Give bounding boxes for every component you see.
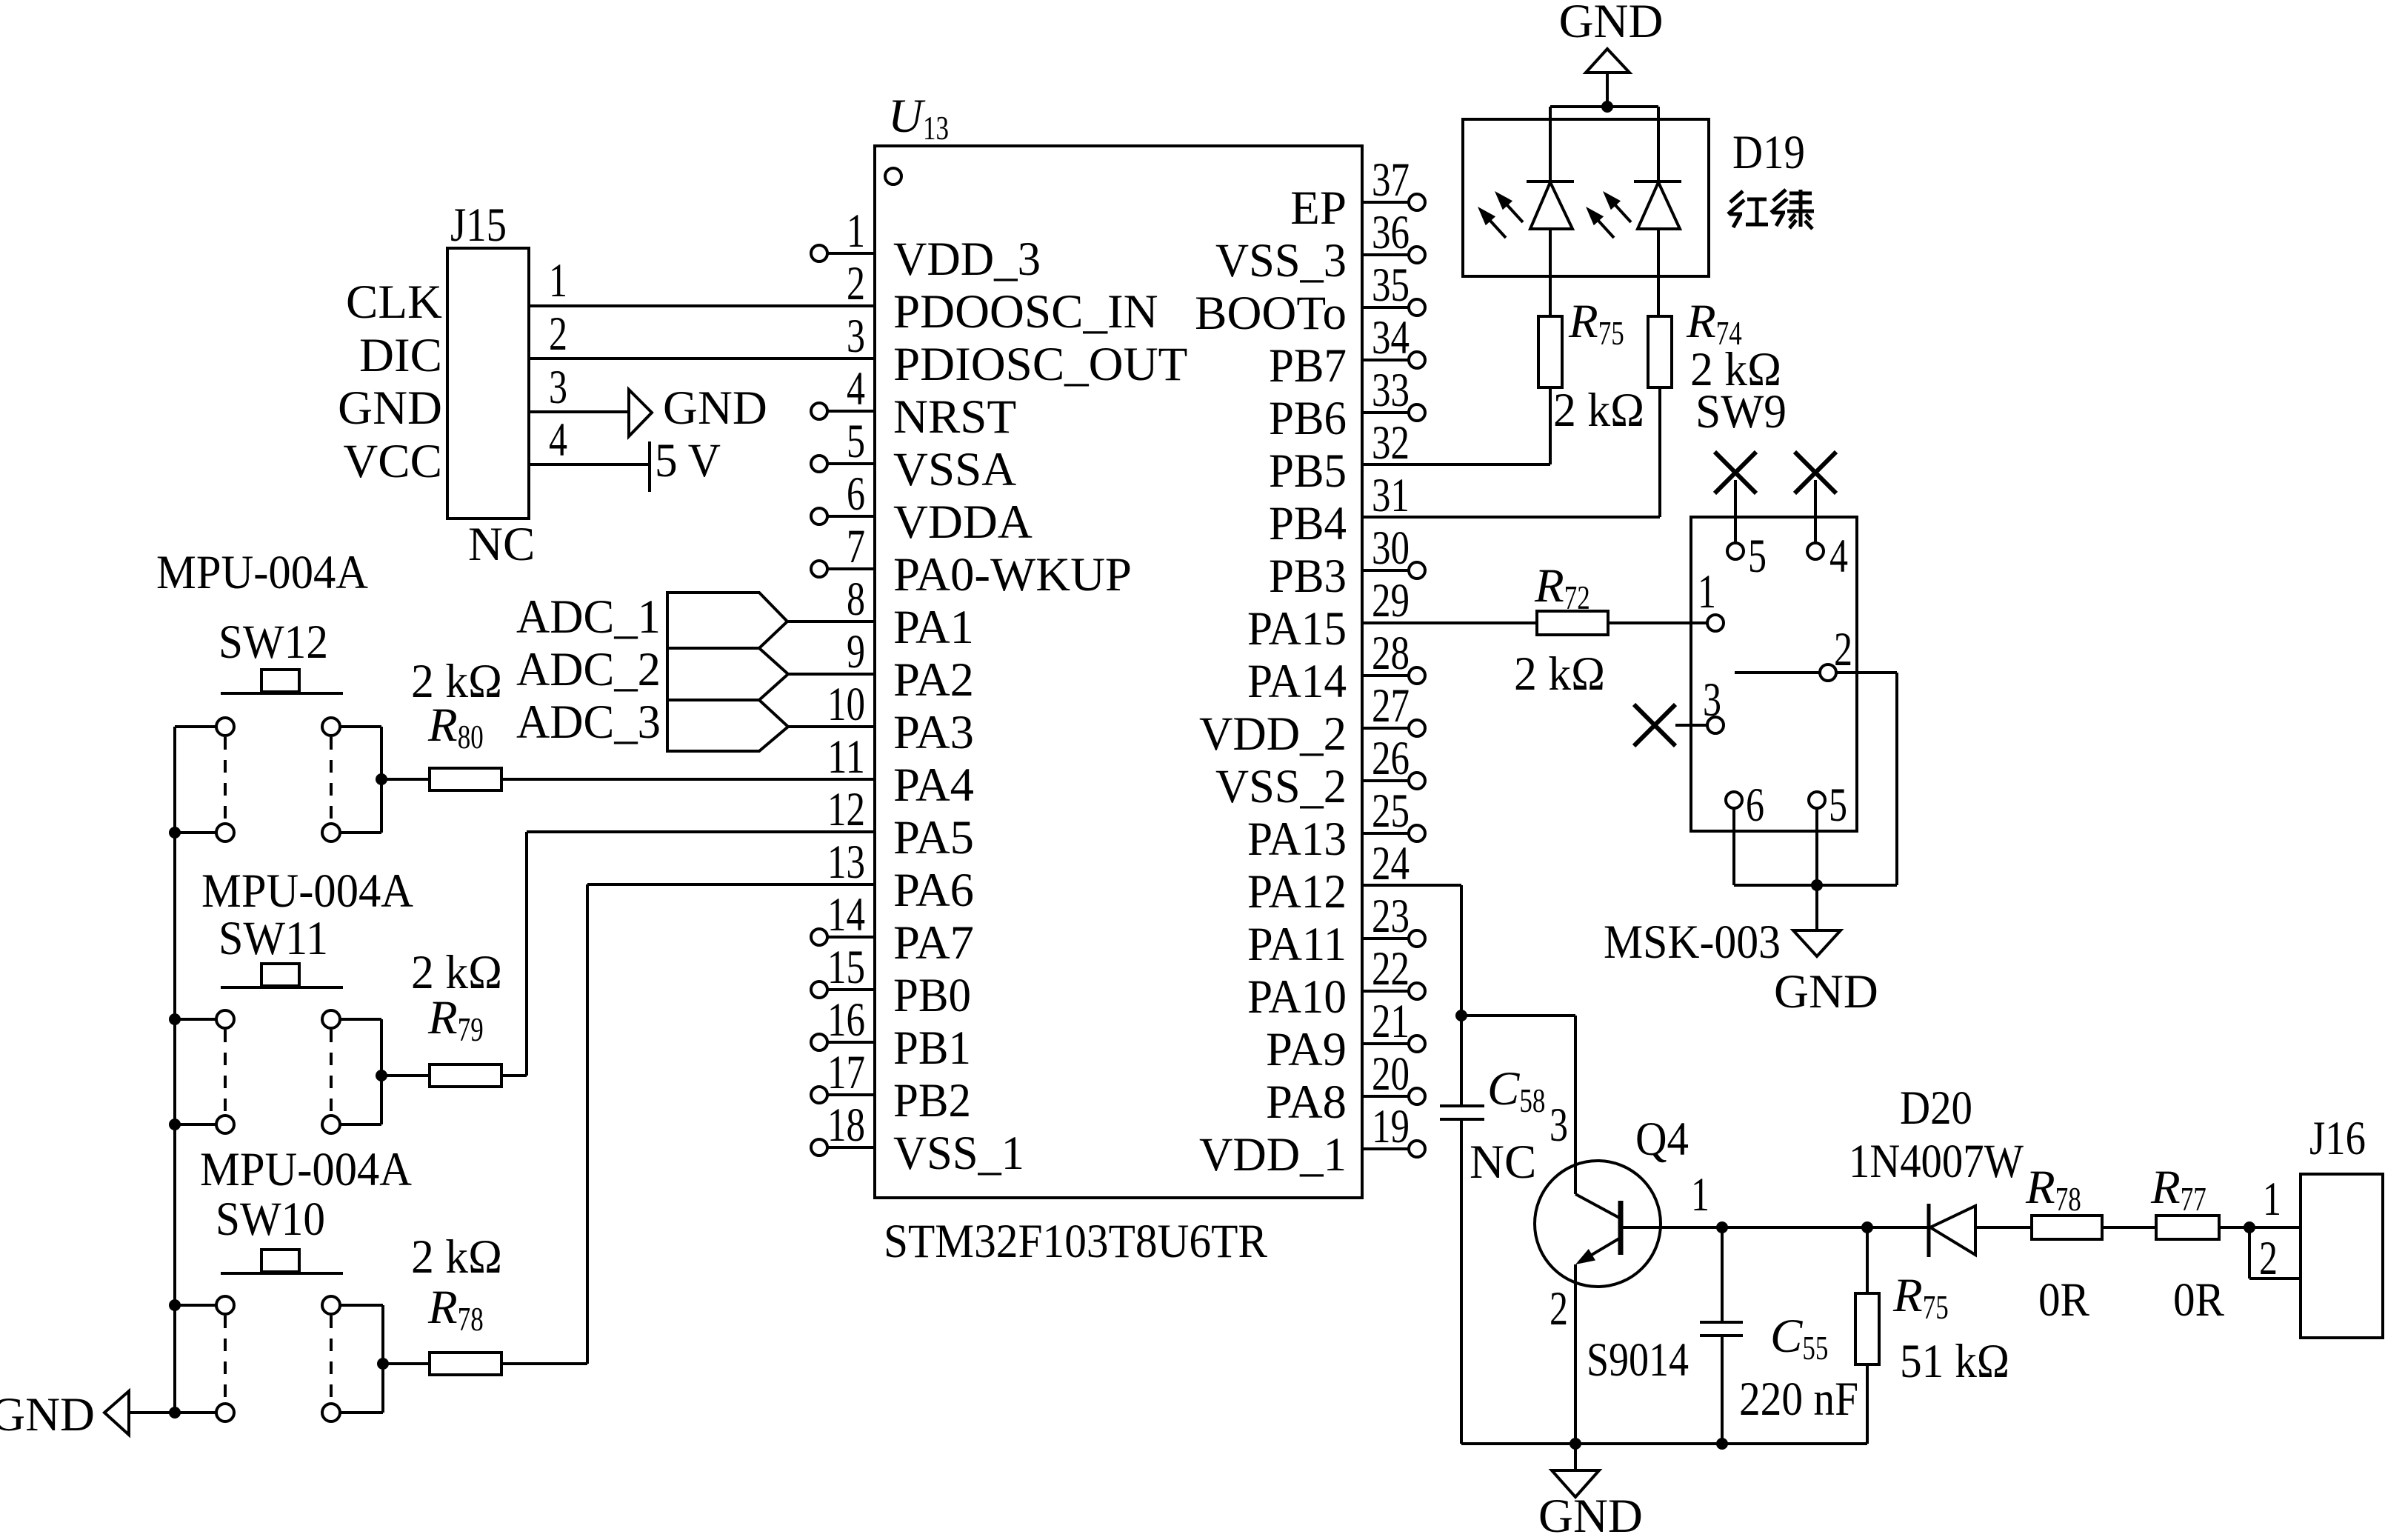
- svg-text:8: 8: [847, 573, 865, 626]
- svg-text:3: 3: [847, 310, 865, 363]
- U13 pin 11 PA4: [827, 730, 974, 812]
- svg-text:PDIOSC_OUT: PDIOSC_OUT: [893, 338, 1187, 391]
- svg-text:13: 13: [827, 836, 865, 889]
- ground symbol above D19: [1559, 0, 1664, 107]
- svg-text:5 V: 5 V: [655, 434, 721, 487]
- connector J16 label: [2309, 1112, 2366, 1165]
- svg-text:11: 11: [827, 730, 865, 784]
- svg-text:VDD_1: VDD_1: [1199, 1128, 1347, 1181]
- resistor R75 (LED left) body: [1538, 316, 1562, 387]
- svg-text:ADC_2: ADC_2: [516, 643, 661, 696]
- wire R75 to U13 pin32 PB5: [1362, 387, 1550, 464]
- svg-text:PB0: PB0: [893, 969, 971, 1022]
- U13 pin 2 PDOOSC_IN: [847, 257, 1158, 339]
- U13 pin 37 EP NC stub: [1290, 153, 1425, 235]
- svg-text:NRST: NRST: [893, 390, 1016, 444]
- LED D19 right diode: [1634, 181, 1681, 316]
- svg-text:3: 3: [1703, 673, 1721, 727]
- svg-text:18: 18: [827, 1099, 865, 1152]
- J15 signal label DIC: [359, 329, 442, 382]
- J15 signal label GND: [338, 381, 442, 435]
- transistor Q4 part S9014: [1587, 1333, 1689, 1387]
- U13 pin 30 PB3 NC stub: [1269, 521, 1425, 603]
- SW9 pin 4 top contact: [1807, 530, 1848, 583]
- svg-text:2: 2: [847, 257, 865, 310]
- U13 pin 28 PA14 NC stub: [1247, 627, 1425, 708]
- svg-text:PA7: PA7: [893, 916, 974, 970]
- svg-text:5: 5: [1829, 779, 1847, 832]
- svg-text:4: 4: [549, 413, 567, 467]
- J16 pin 2 number: [2259, 1232, 2278, 1285]
- capacitor C55 label: [1770, 1310, 1828, 1367]
- svg-text:PA15: PA15: [1247, 602, 1347, 656]
- svg-text:3: 3: [549, 361, 567, 414]
- svg-text:GND: GND: [1774, 965, 1878, 1019]
- resistor R75 (51k) connection: [1861, 1221, 1873, 1293]
- resistor R78 body (switch pullup): [383, 1353, 501, 1375]
- svg-text:26: 26: [1372, 732, 1410, 785]
- resistor R72 value 2 kOhm: [1514, 647, 1605, 701]
- ground symbol below Q4: [1538, 1444, 1643, 1540]
- svg-text:MPU-004A: MPU-004A: [201, 864, 413, 918]
- transistor Q4 label: [1635, 1113, 1689, 1166]
- J15 pin 1 number: [549, 254, 567, 307]
- connector J15 body: [447, 248, 529, 519]
- U13 pin 24 PA12: [1247, 837, 1410, 919]
- svg-text:PDOOSC_IN: PDOOSC_IN: [893, 285, 1158, 339]
- ground flag at J15 pin3: [629, 381, 767, 436]
- svg-text:4: 4: [847, 362, 865, 416]
- resistor R79 value 2 kOhm: [411, 946, 502, 999]
- svg-text:51 kΩ: 51 kΩ: [1900, 1335, 2009, 1388]
- power symbol 5 V: [650, 434, 721, 492]
- svg-text:PB1: PB1: [893, 1021, 971, 1075]
- svg-text:S9014: S9014: [1587, 1333, 1689, 1387]
- svg-text:32: 32: [1372, 416, 1410, 470]
- svg-text:VSS_1: VSS_1: [893, 1127, 1024, 1180]
- svg-text:28: 28: [1372, 627, 1410, 680]
- svg-text:PA9: PA9: [1266, 1023, 1347, 1076]
- svg-text:6: 6: [1746, 779, 1764, 832]
- connector J15 label: [450, 199, 507, 252]
- net flag ADC_1 on U13 pin8 PA1: [516, 590, 787, 648]
- svg-text:VCC: VCC: [343, 435, 442, 488]
- J15 pin 2 number: [549, 307, 567, 361]
- svg-text:1N4007W: 1N4007W: [1849, 1135, 2024, 1188]
- LED D19 right arrows: [1586, 191, 1631, 238]
- switch SW12 reference label: [219, 616, 328, 669]
- svg-text:EP: EP: [1290, 181, 1347, 235]
- svg-text:5: 5: [847, 415, 865, 468]
- U13 pin 5 VSSA NC stub: [811, 415, 1016, 496]
- U13 pin 9 PA2: [847, 625, 974, 707]
- SW9 pin 5 bottom contact: [1809, 779, 1847, 832]
- svg-text:PA3: PA3: [893, 706, 974, 759]
- svg-text:14: 14: [827, 888, 865, 941]
- U13 pin 19 VDD_1 NC stub: [1199, 1100, 1425, 1181]
- svg-text:1: 1: [2263, 1173, 2281, 1226]
- svg-text:NC: NC: [1470, 1136, 1536, 1189]
- U13 pin 20 PA8 NC stub: [1266, 1047, 1425, 1129]
- ground symbol below SW9: [1774, 885, 1878, 1019]
- LED module D19 body: [1463, 119, 1709, 276]
- svg-text:15: 15: [827, 941, 865, 994]
- svg-text:J15: J15: [450, 199, 507, 252]
- svg-text:Q4: Q4: [1635, 1113, 1689, 1166]
- svg-text:0R: 0R: [2173, 1273, 2225, 1327]
- wire U13 pin29 PA15 to R72 to SW9 pin1: [1362, 621, 1707, 624]
- svg-text:10: 10: [827, 678, 865, 731]
- svg-text:23: 23: [1372, 890, 1410, 943]
- SW9 part label MSK-003: [1604, 916, 1781, 969]
- svg-text:2 kΩ: 2 kΩ: [411, 1230, 502, 1284]
- diode D20 symbol: [1929, 1204, 2032, 1257]
- svg-text:MSK-003: MSK-003: [1604, 916, 1781, 969]
- svg-text:34: 34: [1372, 311, 1410, 364]
- svg-text:6: 6: [847, 467, 865, 521]
- wire R77 to J16: [2219, 1221, 2301, 1233]
- resistor R74 value 2 kOhm: [1690, 343, 1781, 396]
- svg-text:SW12: SW12: [219, 616, 328, 669]
- U13 pin 12 PA5: [827, 783, 974, 864]
- J15 signal label CLK: [346, 276, 442, 329]
- wire SW9 pin5 bottom to ground rail: [1811, 808, 1823, 891]
- svg-text:GND: GND: [1559, 0, 1664, 48]
- U13 pin 10 PA3: [827, 678, 974, 759]
- svg-text:16: 16: [827, 993, 865, 1047]
- resistor R78 label: [427, 1281, 484, 1338]
- svg-text:PB4: PB4: [1269, 497, 1347, 550]
- svg-text:25: 25: [1372, 784, 1410, 838]
- SW9 pin 3 contact: [1703, 673, 1724, 733]
- svg-text:PB7: PB7: [1269, 339, 1347, 393]
- U13 pin 32 PB5: [1269, 416, 1410, 498]
- svg-text:PB6: PB6: [1269, 392, 1347, 445]
- resistor R78 (0R) label: [2025, 1161, 2081, 1218]
- svg-text:19: 19: [1372, 1100, 1410, 1153]
- svg-text:SW9: SW9: [1695, 385, 1787, 439]
- U13 pin 35 BOOTo NC stub: [1195, 259, 1425, 340]
- svg-text:DIC: DIC: [359, 329, 442, 382]
- U13 pin 3 PDIOSC_OUT: [847, 310, 1187, 391]
- transistor Q4 collector pin number 3: [1550, 1099, 1568, 1152]
- resistor R75 label: [1568, 295, 1624, 352]
- U13 pin 27 VDD_2 NC stub: [1199, 679, 1425, 761]
- resistor R74 body: [1648, 316, 1672, 387]
- resistor R80 body: [381, 768, 501, 790]
- resistor R78 value 0R: [2038, 1273, 2090, 1327]
- IC U1 (U13 STM32F103T8U6TR) body: [875, 146, 1362, 1198]
- switch SW10 contacts and dashed links: [216, 1296, 340, 1421]
- svg-text:220 nF: 220 nF: [1739, 1373, 1858, 1426]
- svg-text:PA12: PA12: [1247, 865, 1347, 919]
- transistor Q4 base pin number 1: [1691, 1168, 1709, 1221]
- U13 pin 33 PB6 NC stub: [1269, 364, 1425, 445]
- svg-text:2 kΩ: 2 kΩ: [1514, 647, 1605, 701]
- svg-text:VDD_2: VDD_2: [1199, 707, 1347, 761]
- svg-text:2 kΩ: 2 kΩ: [1553, 384, 1644, 437]
- U13 pin 22 PA10 NC stub: [1247, 942, 1425, 1024]
- net flag ADC_2 on U13 pin9 PA2: [516, 643, 788, 700]
- svg-text:GND: GND: [1538, 1490, 1643, 1540]
- SW9 no-connect X pin5 top: [1715, 452, 1756, 543]
- svg-text:SW11: SW11: [219, 912, 328, 965]
- svg-text:7: 7: [847, 520, 865, 573]
- svg-text:1: 1: [1691, 1168, 1709, 1221]
- resistor R78 (0R) body: [2032, 1216, 2102, 1239]
- SW9 pin 5 top contact: [1727, 530, 1767, 583]
- switch SW11 label MPU-004A: [201, 864, 413, 918]
- svg-text:PA1: PA1: [893, 601, 974, 654]
- switch SW10 reference label: [216, 1193, 325, 1246]
- svg-text:1: 1: [847, 204, 865, 258]
- SW9 pin 2 contact: [1820, 623, 1852, 681]
- svg-text:12: 12: [827, 783, 865, 836]
- net flag ADC_3 on U13 pin10 PA3: [516, 696, 788, 751]
- svg-text:29: 29: [1372, 574, 1410, 627]
- wire R78 to R77: [2102, 1226, 2156, 1229]
- wire SW10 left contacts to ground rail: [169, 1299, 216, 1419]
- wire ADC_1 flag to U13 pin8: [787, 620, 875, 623]
- resistor R74 label: [1686, 295, 1742, 352]
- wire SW12 right contacts to R80: [340, 727, 387, 833]
- svg-text:SW10: SW10: [216, 1193, 325, 1246]
- svg-text:24: 24: [1372, 837, 1410, 890]
- svg-text:PA4: PA4: [893, 759, 974, 812]
- IC U13 part number STM32F103T8U6TR: [884, 1215, 1268, 1268]
- U13 pin 4 NRST NC stub: [811, 362, 1016, 444]
- svg-text:9: 9: [847, 625, 865, 679]
- svg-text:0R: 0R: [2038, 1273, 2090, 1327]
- resistor R75 (51k) label: [1892, 1269, 1949, 1326]
- svg-text:4: 4: [1829, 530, 1848, 583]
- svg-text:D20: D20: [1900, 1081, 1972, 1135]
- resistor R75 (51k) body: [1855, 1293, 1879, 1444]
- wire R74 to U13 pin31 PB4: [1362, 387, 1660, 517]
- switch SW11 contacts and dashed links: [216, 1010, 340, 1133]
- resistor R79 body: [381, 1064, 501, 1087]
- svg-text:PB3: PB3: [1269, 550, 1347, 603]
- svg-text:BOOTo: BOOTo: [1195, 287, 1347, 340]
- svg-text:ADC_1: ADC_1: [516, 590, 661, 644]
- resistor R79 label: [427, 991, 484, 1048]
- svg-text:PA13: PA13: [1247, 813, 1347, 866]
- svg-text:30: 30: [1372, 521, 1410, 575]
- U13 pin 7 PA0-WKUP NC stub: [811, 520, 1132, 601]
- switch SW12 label MPU-004A: [156, 546, 368, 599]
- U13 pin 21 PA9 NC stub: [1266, 995, 1425, 1076]
- capacitor C55 body: [1700, 1322, 1743, 1450]
- J15 signal label VCC: [343, 435, 442, 488]
- svg-text:D19: D19: [1732, 126, 1805, 179]
- resistor R72 label: [1534, 559, 1590, 616]
- wire R79 to U13 pin12 PA5: [501, 832, 875, 1076]
- svg-text:GND: GND: [0, 1388, 95, 1441]
- connector J16 body: [2301, 1174, 2383, 1338]
- wire SW12 left contacts to ground rail: [169, 727, 216, 839]
- U13 pin 23 PA11 NC stub: [1247, 890, 1425, 971]
- svg-text:33: 33: [1372, 364, 1410, 417]
- svg-text:2: 2: [549, 307, 567, 361]
- switch SW12 contacts and dashed links: [216, 718, 340, 841]
- svg-text:PA6: PA6: [893, 864, 974, 917]
- svg-text:ADC_3: ADC_3: [516, 696, 661, 749]
- svg-text:PB5: PB5: [1269, 444, 1347, 498]
- J15 pin 3 number: [549, 361, 567, 414]
- svg-text:2: 2: [1834, 623, 1852, 676]
- diode D20 part 1N4007W: [1849, 1135, 2024, 1188]
- svg-text:27: 27: [1372, 679, 1410, 733]
- U13 pin 29 PA15: [1247, 574, 1410, 656]
- switch SW9 label: [1695, 385, 1787, 439]
- transistor Q4 body: [1535, 1161, 1929, 1444]
- LED D19 label: [1732, 126, 1805, 179]
- resistor R77 (0R) body: [2156, 1216, 2219, 1239]
- resistor R75 value 51 kOhm: [1900, 1335, 2009, 1388]
- switch SW10 label MPU-004A: [200, 1143, 412, 1196]
- wire J16 pin2 loop: [2249, 1227, 2301, 1279]
- wire ADC_2 flag to U13 pin9: [788, 673, 875, 676]
- SW9 pin 6 contact: [1726, 779, 1764, 832]
- LED D19 label honglv (red-green): [1728, 190, 1814, 229]
- svg-text:GND: GND: [338, 381, 442, 435]
- wire D19 common cathode to GND: [1550, 101, 1658, 181]
- wire J15 pin3 to GND flag: [529, 410, 629, 413]
- wire U13 pin24 PA12 to C58 and Q4: [1362, 885, 1575, 1194]
- U13 pin 25 PA13 NC stub: [1247, 784, 1425, 866]
- svg-text:17: 17: [827, 1046, 865, 1099]
- svg-text:31: 31: [1372, 469, 1410, 522]
- net label NC at C58: [1470, 1136, 1536, 1189]
- resistor R77 (0R) label: [2150, 1161, 2206, 1218]
- svg-text:VSS_3: VSS_3: [1215, 234, 1347, 287]
- svg-text:PA0-WKUP: PA0-WKUP: [893, 548, 1132, 601]
- svg-text:VSSA: VSSA: [893, 443, 1016, 496]
- svg-text:VSS_2: VSS_2: [1215, 760, 1347, 813]
- svg-text:1: 1: [1698, 565, 1716, 619]
- wire J15 pin2 to U13 pin3 PDIOSC_OUT: [529, 357, 875, 360]
- svg-text:PA8: PA8: [1266, 1076, 1347, 1129]
- U13 pin 31 PB4: [1269, 469, 1410, 550]
- U13 pin 8 PA1: [847, 573, 974, 654]
- J15 NC label: [468, 518, 535, 571]
- svg-text:NC: NC: [468, 518, 535, 571]
- wire ground rail left column: [173, 727, 176, 1413]
- U13 pin 16 PB1 NC stub: [811, 993, 971, 1075]
- resistor R77 value 0R: [2173, 1273, 2225, 1327]
- svg-text:MPU-004A: MPU-004A: [200, 1143, 412, 1196]
- svg-text:2: 2: [1550, 1282, 1568, 1336]
- capacitor C55 connection: [1716, 1221, 1728, 1322]
- svg-text:1: 1: [549, 254, 567, 307]
- LED D19 left diode: [1527, 181, 1574, 316]
- SW9 no-connect X pin3: [1634, 704, 1707, 746]
- LED D19 left arrows: [1478, 191, 1523, 238]
- U13 pin 36 VSS_3 NC stub: [1215, 206, 1425, 287]
- wire R80 to U13 pin11 PA4: [501, 778, 875, 781]
- SW9 no-connect X pin4 top: [1795, 452, 1836, 543]
- U13 pin 17 PB2 NC stub: [811, 1046, 971, 1127]
- svg-text:5: 5: [1748, 530, 1767, 583]
- svg-text:37: 37: [1372, 153, 1410, 207]
- U13 pin 14 PA7 NC stub: [811, 888, 974, 970]
- svg-text:21: 21: [1372, 995, 1410, 1048]
- SW9 pin 1 contact: [1698, 565, 1724, 631]
- svg-text:STM32F103T8U6TR: STM32F103T8U6TR: [884, 1215, 1268, 1268]
- wire ADC_3 flag to U13 pin10: [788, 725, 875, 728]
- svg-text:3: 3: [1550, 1099, 1568, 1152]
- wire J15 pin4 to 5V: [529, 463, 650, 466]
- IC U13 reference designator label: [888, 90, 949, 147]
- J15 pin 4 number: [549, 413, 567, 467]
- wire SW11 left contacts to ground rail: [169, 1013, 216, 1130]
- ground flag bottom left: [0, 1388, 175, 1441]
- svg-text:CLK: CLK: [346, 276, 442, 329]
- svg-text:35: 35: [1372, 259, 1410, 312]
- U13 pin 26 VSS_2 NC stub: [1215, 732, 1425, 813]
- wire SW9 pin6 to ground rail: [1734, 808, 1817, 885]
- U13 pin 1 VDD_3 NC stub: [811, 204, 1041, 286]
- svg-text:PA10: PA10: [1247, 970, 1347, 1024]
- svg-text:22: 22: [1372, 942, 1410, 996]
- resistor R80 value 2 kOhm: [411, 655, 502, 708]
- U13 pin 6 VDDA NC stub: [811, 467, 1033, 549]
- ground rail below Q4: [1461, 1438, 1867, 1450]
- U13 pin 34 PB7 NC stub: [1269, 311, 1425, 393]
- wire SW11 right contacts to R79: [340, 1019, 387, 1124]
- resistor R80 label: [427, 699, 484, 756]
- svg-text:PA14: PA14: [1247, 655, 1347, 708]
- switch SW12 button symbol: [221, 670, 343, 693]
- resistor R72 body: [1537, 611, 1608, 635]
- U13 pin 18 VSS_1 NC stub: [811, 1099, 1024, 1180]
- svg-text:PB2: PB2: [893, 1074, 971, 1127]
- svg-text:PA11: PA11: [1247, 918, 1347, 971]
- svg-text:VDD_3: VDD_3: [893, 233, 1041, 286]
- U13 pin 13 PA6: [827, 836, 974, 917]
- SW9 switch arm pin3 to pin2: [1735, 671, 1819, 674]
- svg-text:GND: GND: [663, 381, 767, 435]
- transistor Q4 emitter pin number 2: [1550, 1282, 1568, 1336]
- svg-text:20: 20: [1372, 1047, 1410, 1101]
- capacitor C58 label: [1487, 1062, 1545, 1119]
- capacitor C58 body: [1440, 1106, 1484, 1444]
- svg-text:PA2: PA2: [893, 653, 974, 707]
- switch SW10 button symbol: [221, 1250, 343, 1273]
- svg-text:36: 36: [1372, 206, 1410, 259]
- resistor R75 value 2 kOhm: [1553, 384, 1644, 437]
- wire J15 pin1 to U13 pin2 PDOOSC_IN: [529, 304, 875, 307]
- svg-text:J16: J16: [2309, 1112, 2366, 1165]
- diode D20 label: [1900, 1081, 1972, 1135]
- J16 pin 1 number: [2263, 1173, 2281, 1226]
- switch SW11 reference label: [219, 912, 328, 965]
- resistor R78 value 2 kOhm: [411, 1230, 502, 1284]
- svg-text:VDDA: VDDA: [893, 496, 1033, 549]
- wire SW9 pin2 loop to ground rail: [1817, 673, 1897, 885]
- wire R78 to U13 pin13 PA6: [501, 884, 875, 1364]
- U13 pin 15 PB0 NC stub: [811, 941, 971, 1022]
- svg-text:PA5: PA5: [893, 811, 974, 864]
- svg-text:MPU-004A: MPU-004A: [156, 546, 368, 599]
- switch SW9 body: [1691, 517, 1857, 831]
- wire SW10 right contacts to R78: [340, 1305, 389, 1413]
- switch SW11 button symbol: [221, 964, 343, 987]
- capacitor C55 value 220 nF: [1739, 1373, 1858, 1426]
